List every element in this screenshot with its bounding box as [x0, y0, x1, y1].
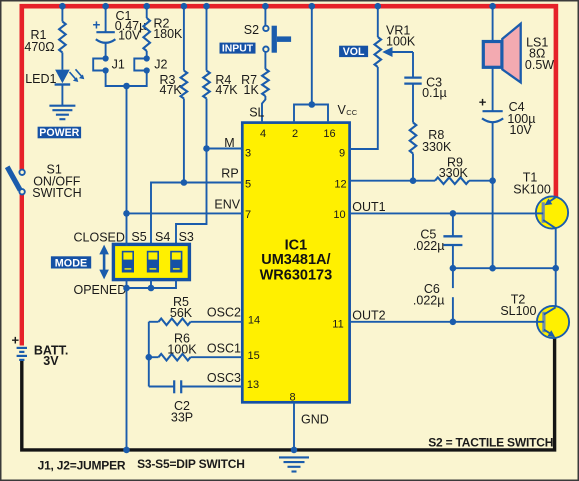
capacitor C1 (polarized): [93, 17, 116, 43]
svg-text:SL: SL: [249, 105, 264, 119]
svg-text:V: V: [338, 103, 347, 117]
label S1 ON/OFF SWITCH: [32, 163, 81, 200]
svg-text:SWITCH: SWITCH: [32, 186, 81, 200]
resistor R5: [149, 319, 243, 326]
jumper J2: [134, 55, 149, 73]
wire R2 to J2: [146, 51, 148, 59]
label OSC1: [207, 341, 241, 355]
tactile switch S2 contacts: [263, 26, 268, 52]
svg-text:0.1µ: 0.1µ: [422, 86, 447, 100]
svg-text:10V: 10V: [118, 28, 141, 42]
svg-text:S5: S5: [131, 230, 146, 244]
wire rail to R2: [146, 6, 148, 18]
pin 4 number: [260, 128, 266, 140]
svg-text:S2: S2: [244, 23, 259, 37]
MODE double arrow: [99, 245, 109, 280]
speaker LS1: [483, 24, 520, 83]
junction dot rail/R3: [181, 3, 188, 10]
svg-text:15: 15: [247, 350, 259, 362]
svg-text:47K: 47K: [160, 83, 183, 97]
svg-text:CC: CC: [346, 108, 357, 117]
ground symbol at GND: [279, 457, 309, 471]
svg-text:.022µ: .022µ: [413, 239, 445, 253]
svg-text:180K: 180K: [153, 27, 183, 41]
DIP switch S4 slider: [147, 252, 158, 272]
svg-text:INPUT: INPUT: [222, 44, 254, 55]
junction dot rail/S2: [262, 3, 269, 10]
resistor R2: [143, 18, 150, 51]
wire OUT1 pin 10 to T1 base: [350, 212, 537, 214]
pin 13 number: [247, 379, 259, 391]
mid rail wire: [453, 267, 556, 269]
op-amp/IC U1 body (IC1 UM3481A): [242, 123, 349, 403]
svg-text:9: 9: [339, 147, 345, 159]
LED1 light arrows: [70, 69, 85, 82]
junction dot rail/LS1: [489, 3, 496, 10]
wire rail to VR1: [377, 6, 379, 37]
wire VR1 to pin 9: [350, 67, 378, 149]
label LED1: [25, 72, 56, 86]
svg-text:J1, J2=JUMPER: J1, J2=JUMPER: [38, 459, 126, 473]
VR1 wiper arrow: [382, 47, 413, 78]
junction dot on ground rail: [123, 447, 130, 454]
label C2 33P: [171, 399, 193, 425]
label S4: [155, 230, 170, 244]
junction dot OUT2/C6: [450, 319, 457, 326]
label C6 .022µ: [413, 282, 445, 307]
battery BATT. 3V: [12, 333, 28, 360]
pin 16 number: [323, 128, 335, 140]
svg-text:UM3481A/: UM3481A/: [261, 252, 330, 268]
svg-text:S4: S4: [155, 230, 170, 244]
wire rail to LS1: [492, 6, 494, 42]
wire C1 to J1: [105, 44, 107, 59]
svg-text:MODE: MODE: [55, 257, 87, 269]
svg-text:10V: 10V: [510, 123, 533, 137]
wire R1 to LED1: [61, 53, 63, 70]
svg-text:OUT2: OUT2: [352, 309, 385, 323]
transistor T2 (SL100 NPN): [537, 306, 569, 338]
label RP: [221, 167, 238, 181]
svg-text:S3-S5=DIP SWITCH: S3-S5=DIP SWITCH: [137, 457, 245, 471]
junction dot Vcc bracket: [309, 101, 316, 108]
svg-text:330K: 330K: [422, 140, 452, 154]
junction dot mid/T1-T2: [552, 265, 559, 272]
pin 3 number: [245, 147, 251, 159]
svg-text:VOL: VOL: [343, 46, 365, 58]
label CLOSED: [74, 230, 125, 244]
oscillator bus wire: [148, 322, 150, 387]
wire rail to C1: [105, 6, 107, 32]
label OSC3: [207, 371, 241, 385]
resistor R4: [203, 71, 210, 99]
svg-text:+: +: [93, 17, 101, 32]
capacitor C3: [404, 78, 421, 123]
label OUT1: [352, 200, 385, 214]
pin 14 number: [248, 314, 260, 326]
label S5: [131, 230, 146, 244]
note J1 J2 jumper: [38, 459, 126, 473]
svg-text:LED1: LED1: [25, 72, 56, 86]
svg-text:SK100: SK100: [513, 182, 551, 196]
svg-text:SL100: SL100: [500, 304, 536, 318]
resistor R3: [181, 71, 188, 99]
capacitor C6 (wire gap): [452, 268, 454, 322]
label OPENED: [74, 283, 127, 297]
DIP switch S3 slider: [171, 252, 182, 272]
wire RP pin 5 to S4: [151, 183, 242, 246]
svg-text:14: 14: [248, 314, 260, 326]
svg-text:OSC1: OSC1: [207, 341, 241, 355]
label T1 SK100: [513, 171, 551, 197]
junction dot rail/Vcc: [309, 3, 316, 10]
junction dot OUT1/C5: [450, 210, 457, 217]
junction dot M/R4: [203, 145, 210, 152]
wire R7 to pin 4 (SL): [262, 96, 265, 121]
svg-text:S3: S3: [179, 230, 194, 244]
wire T2 collector from mid rail: [555, 268, 557, 307]
pin 8 number: [290, 391, 296, 403]
potentiometer VR1: [375, 37, 382, 67]
svg-text:470Ω: 470Ω: [24, 40, 54, 54]
resistor R6: [149, 354, 243, 361]
capacitor C5: [443, 213, 462, 268]
label Vcc: [338, 103, 358, 117]
resistor R1: [59, 22, 66, 53]
label R8 330K: [422, 128, 452, 154]
svg-text:3: 3: [245, 147, 251, 159]
junction dot bus/R6: [146, 354, 153, 361]
label INPUT box: [220, 43, 256, 55]
pin 12 number: [334, 179, 346, 191]
svg-text:4: 4: [260, 128, 266, 140]
svg-text:ENV: ENV: [214, 197, 240, 211]
note S3-S5 dip switch: [137, 457, 245, 471]
label R5 56K: [170, 295, 193, 320]
wire rail to S2: [264, 6, 266, 26]
DIP switch S3-S5 body: [113, 244, 189, 279]
junction dot mid/C4 branch: [489, 265, 496, 272]
svg-text:J2: J2: [154, 58, 167, 72]
svg-text:WR630173: WR630173: [260, 268, 333, 284]
label R9 330K: [439, 155, 469, 180]
label C1 0.47µ 10V: [115, 9, 147, 42]
svg-text:5: 5: [245, 179, 251, 191]
transistor T1 (SK100 PNP): [536, 196, 568, 228]
pin 9 number: [339, 147, 345, 159]
svg-text:10: 10: [333, 209, 345, 221]
junction dot rail/VR1: [375, 3, 382, 10]
junction dot J1/J2 join: [123, 83, 130, 90]
label R7 1K: [241, 73, 259, 97]
junction dot rail/R4: [203, 3, 210, 10]
wire rail to R1: [61, 6, 63, 22]
label J1: [112, 58, 125, 72]
wire R8 to pin12 node: [412, 154, 414, 181]
svg-text:OUT1: OUT1: [352, 200, 385, 214]
tactile switch S2 button: [272, 26, 292, 53]
svg-text:CLOSED: CLOSED: [74, 230, 125, 244]
pin 2 number: [292, 128, 298, 140]
ground under LED1: [49, 106, 75, 120]
svg-text:2: 2: [292, 128, 298, 140]
svg-text:330K: 330K: [439, 166, 469, 180]
svg-text:56K: 56K: [170, 306, 193, 320]
svg-text:+: +: [12, 333, 20, 348]
svg-text:1K: 1K: [244, 83, 260, 97]
label OSC2: [207, 306, 241, 320]
wire Vcc from rail: [311, 6, 313, 105]
resistor R9: [435, 177, 469, 184]
label MODE box: [51, 256, 91, 269]
label R2 180K: [153, 17, 183, 42]
label OUT2: [352, 309, 385, 323]
junction dot rail/R2: [143, 3, 150, 10]
label IC1 UM3481A/WR630173: [260, 238, 333, 284]
pin 15 number: [247, 350, 259, 362]
capacitor C4 (polarized): [479, 94, 504, 122]
resistor R8: [410, 123, 417, 154]
junction dot OPENED S5: [123, 285, 130, 292]
wire S2 to R7: [264, 52, 266, 69]
battery - rail (black) down left, across bottom, up right to T2 emitter: [22, 337, 555, 450]
svg-text:12: 12: [334, 179, 346, 191]
svg-text:S2 = TACTILE SWITCH: S2 = TACTILE SWITCH: [428, 436, 553, 450]
wire LS1 to C4: [492, 68, 494, 112]
label T2 SL100: [500, 292, 536, 318]
label C3 0.1µ: [422, 75, 447, 100]
label LS1 8Ω 0.5W: [525, 35, 554, 72]
svg-text:OSC2: OSC2: [207, 306, 241, 320]
wire pin 8 GND to ground rail: [293, 402, 295, 450]
label J2: [154, 58, 167, 72]
wire rail to R4: [206, 6, 208, 71]
svg-text:7: 7: [245, 209, 251, 221]
junction dot ENV/J1J2: [123, 210, 130, 217]
svg-text:100K: 100K: [167, 342, 197, 356]
junction dot GND rail: [291, 447, 298, 454]
resistor R7: [262, 69, 269, 96]
label M: [224, 136, 234, 150]
wire DIP bottoms to OPENED rail: [127, 280, 177, 288]
junction dot RP/R3: [181, 179, 188, 186]
note S2 tactile switch: [428, 436, 553, 450]
label S3: [179, 230, 194, 244]
svg-text:16: 16: [323, 128, 335, 140]
junction dot mid/C5: [450, 265, 457, 272]
wire T1 collector to mid rail: [555, 228, 557, 268]
label VOL box: [339, 46, 368, 58]
label R4 47K: [215, 73, 238, 97]
svg-text:J1: J1: [112, 58, 125, 72]
junction dot R8/pin12: [410, 177, 417, 184]
LED LED1: [55, 70, 71, 85]
wire OUT2 pin 11 to T2 base: [350, 321, 537, 323]
wire C4 to R9 node and down to mid rail: [492, 123, 494, 269]
svg-text:11: 11: [332, 318, 343, 330]
wire M node to pin 3: [207, 148, 243, 150]
svg-text:.022µ: .022µ: [413, 293, 445, 307]
label SL: [249, 105, 264, 119]
wire ENV node to pin 7: [127, 212, 243, 214]
wire R4 to M node and down to S3: [176, 99, 207, 246]
label S2: [244, 23, 259, 37]
wire R3 to RP node: [183, 99, 185, 183]
wire LED1 to ground: [61, 85, 63, 106]
junction dot R9/C4: [489, 177, 496, 184]
Vcc bracket to pins 2 and 16: [294, 105, 328, 122]
wire S5 top stub: [126, 213, 128, 246]
svg-text:100K: 100K: [386, 34, 416, 48]
label GND: [301, 412, 329, 426]
switch S1 ON/OFF: [7, 167, 25, 195]
wire J1+J2 join to ENV node: [106, 71, 147, 214]
pin 11 number: [332, 318, 343, 330]
svg-text:13: 13: [247, 379, 259, 391]
pin 7 number: [245, 209, 251, 221]
label POWER box: [38, 127, 82, 140]
label R3 47K: [160, 73, 183, 97]
label ENV: [214, 197, 240, 211]
junction dot rail/R1: [59, 3, 66, 10]
V+ rail (red) from battery + up left side, across top, down right to T1 emitter: [22, 6, 556, 345]
svg-text:+: +: [479, 94, 487, 109]
svg-text:47K: 47K: [215, 83, 238, 97]
junction dot rail/C1: [102, 3, 109, 10]
svg-text:33P: 33P: [171, 411, 193, 425]
label C4 100µ 10V: [507, 100, 535, 137]
jumper J1: [93, 55, 109, 73]
capacitor C2: [149, 380, 243, 393]
svg-text:8: 8: [290, 391, 296, 403]
label VR1 100K: [386, 24, 416, 49]
label R1 470Ω: [24, 28, 54, 54]
pin 5 number: [245, 179, 251, 191]
svg-text:POWER: POWER: [39, 127, 79, 139]
pin 10 number: [333, 209, 345, 221]
label BATT. 3V: [34, 343, 69, 368]
svg-text:GND: GND: [301, 412, 329, 426]
svg-text:0.5W: 0.5W: [525, 58, 554, 72]
wire rail to R3: [183, 6, 185, 71]
wire R9 to C4 node: [469, 180, 493, 182]
label R6 100K: [167, 332, 197, 357]
junction dot OPENED S4: [148, 285, 155, 292]
DIP switch S5 slider: [122, 252, 133, 272]
wire OPENED rail to ground rail: [126, 288, 128, 450]
wire pin 12 to R9: [350, 180, 435, 182]
svg-text:3V: 3V: [43, 354, 59, 368]
svg-text:OSC3: OSC3: [207, 371, 241, 385]
svg-text:RP: RP: [221, 167, 238, 181]
label C5 .022µ: [413, 228, 445, 253]
svg-text:OPENED: OPENED: [74, 283, 127, 297]
svg-text:M: M: [224, 136, 234, 150]
